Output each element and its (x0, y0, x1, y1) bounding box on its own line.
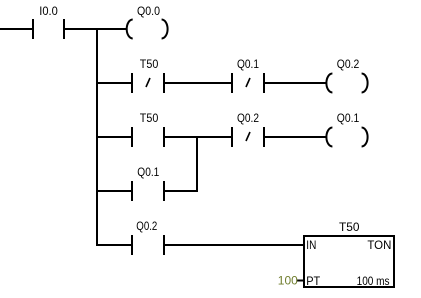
wire rung5 a (97, 244, 132, 246)
svg-text:100 ms: 100 ms (357, 274, 390, 288)
svg-text:Q0.1: Q0.1 (237, 57, 259, 71)
svg-text:I0.0: I0.0 (39, 4, 58, 18)
contact Q0.2 NC (232, 127, 264, 147)
coil Q0.1 (326, 128, 367, 147)
svg-text:Q0.2: Q0.2 (136, 219, 157, 233)
wire rung2 a (97, 82, 132, 84)
timer box T50 TON (304, 236, 394, 287)
slash Q0.2 (246, 132, 250, 141)
contact T50 NC (132, 73, 164, 93)
svg-text:Q0.1: Q0.1 (337, 111, 360, 125)
wire rung4 a (97, 190, 132, 192)
svg-text:Q0.2: Q0.2 (337, 57, 360, 71)
contact Q0.1 NC (232, 73, 264, 93)
wire rung4 b (164, 190, 198, 192)
wire rung1 left (0, 28, 33, 30)
coil Q0.2 (326, 74, 367, 93)
svg-text:IN: IN (306, 238, 316, 252)
wire rung3 c (264, 136, 326, 138)
contact Q0.1 NO (132, 181, 164, 201)
contact I0.0 (33, 19, 64, 39)
wire rung2 c (264, 82, 326, 84)
wire rung3 b (164, 136, 232, 138)
svg-text:PT: PT (306, 274, 321, 288)
svg-text:Q0.2: Q0.2 (237, 111, 259, 125)
wire rung2 b (164, 82, 232, 84)
svg-text:100: 100 (278, 274, 298, 288)
svg-text:TON: TON (367, 238, 391, 252)
svg-text:Q0.0: Q0.0 (137, 4, 160, 18)
svg-text:T50: T50 (339, 220, 360, 234)
svg-text:Q0.1: Q0.1 (137, 165, 159, 179)
branch vertical rung3-rung4 (196, 136, 198, 192)
wire rung5 to timer (164, 244, 304, 246)
contact T50 NO (132, 127, 164, 147)
wire rung1 to coil (64, 28, 127, 30)
left branch rail (96, 28, 98, 246)
wire rung3 a (97, 136, 132, 138)
svg-text:T50: T50 (140, 111, 159, 125)
PT preset tick (297, 280, 304, 282)
slash Q0.1 (246, 78, 250, 87)
svg-text:T50: T50 (140, 57, 159, 71)
coil Q0.0 (127, 20, 168, 39)
slash T50 (146, 78, 150, 87)
contact Q0.2 NO (132, 235, 164, 255)
